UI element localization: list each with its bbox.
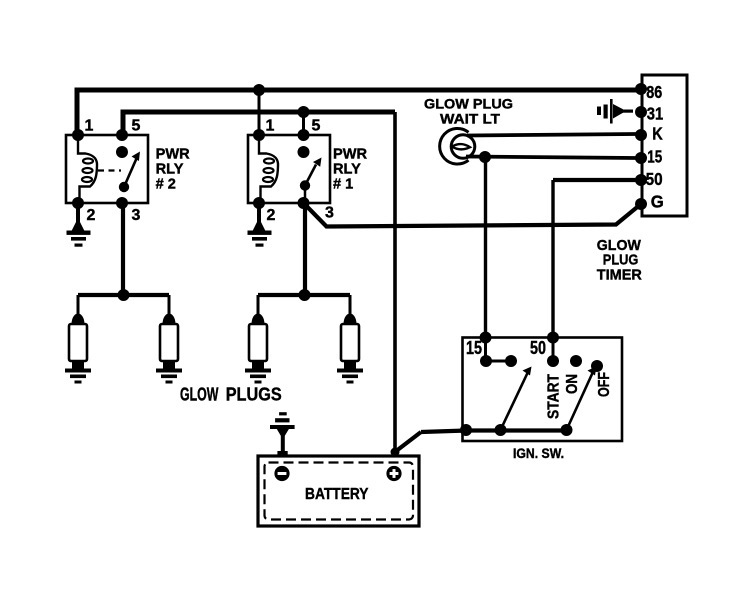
chassis symbol at terminal 31 (597, 99, 633, 124)
svg-text:2: 2 (87, 207, 96, 224)
node: 15 wire at box edge (480, 332, 492, 344)
terminal dot K (635, 129, 647, 141)
wire: drop to glow plug GP4 (349, 295, 352, 315)
svg-text:BATTERY: BATTERY (305, 486, 369, 503)
wire: right glow plug header (258, 293, 350, 297)
svg-text:31: 31 (647, 104, 664, 124)
node: right header junction (299, 289, 311, 301)
wire: drop to glow plug GP3 (257, 295, 260, 315)
terminal dot 31 (635, 106, 647, 118)
wire: 50 from timer to ignition switch (553, 178, 640, 182)
pin dot 5 relay2 (116, 129, 128, 141)
wire: second bus from relay2 terminal 5 to battery + drop (123, 112, 395, 135)
pin dot 3 relay2 (116, 197, 128, 209)
svg-text:# 1: # 1 (333, 176, 353, 192)
wire: battery feed drop (393, 112, 397, 453)
ground above battery minus (270, 412, 295, 456)
svg-text:5: 5 (312, 118, 321, 135)
ignition switch box (463, 338, 623, 442)
switch arm relay2 with arrowhead (119, 152, 140, 193)
wire: top bus from relay2 terminal 1 to timer 86 (77, 90, 641, 135)
pin dot 1 relay1 (253, 129, 265, 141)
ground under relay2 pin 2 (67, 203, 91, 247)
svg-text:1: 1 (85, 118, 94, 135)
node: 50 wire at box edge (547, 332, 559, 344)
switch arm 1 with arrowhead (501, 367, 532, 431)
node: rail pivot 1 (495, 424, 507, 436)
svg-text:PWR: PWR (156, 146, 191, 162)
terminal dot 50 (635, 174, 647, 186)
svg-text:K: K (652, 124, 663, 144)
wire: drop to glow plug GP2 (168, 295, 171, 315)
wire: lamp to K (467, 134, 640, 136)
svg-text:RLY: RLY (156, 162, 184, 178)
node: ON contact (570, 355, 582, 367)
svg-text:G: G (651, 192, 664, 212)
pin dot 3 relay1 (298, 197, 310, 209)
battery box (258, 456, 419, 526)
node: OFF contact (591, 360, 603, 372)
wire: battery plus diagonal to switch rail (396, 432, 422, 452)
pin dot 5 relay1 (298, 129, 310, 141)
glow plug GP2 (156, 314, 182, 384)
svg-text:IGN. SW.: IGN. SW. (513, 445, 564, 461)
wire: relay2 pin3 down to glow plug pair (121, 203, 125, 295)
node: 15 contact right (505, 355, 517, 367)
wire: 50 stub inside switch (552, 338, 555, 362)
svg-text:# 2: # 2 (156, 176, 176, 192)
relay U1 box (PWR RLY #1) (248, 135, 330, 203)
wire: drop from 86 bus to relay1 terminal 1 (258, 90, 261, 135)
wire: 15 stub inside switch (486, 338, 512, 362)
svg-text:PWR: PWR (333, 146, 368, 162)
svg-text:1: 1 (266, 118, 275, 135)
node: rail dot at box edge (460, 424, 472, 436)
terminal dot 86 (635, 83, 647, 95)
node: junction on 15 wire (479, 151, 491, 163)
node: left header junction (118, 289, 130, 301)
contact dot relay2 (116, 146, 128, 158)
svg-text:15: 15 (647, 147, 662, 167)
svg-text:GLOW PLUG: GLOW PLUG (424, 97, 513, 112)
pin dot 2 relay1 (253, 197, 265, 209)
terminal dot G (635, 198, 647, 210)
svg-text:OFF: OFF (596, 372, 613, 397)
relay U2 box (PWR RLY #2) (66, 135, 148, 203)
svg-text:PLUGS: PLUGS (226, 385, 282, 405)
svg-text:RLY: RLY (333, 162, 361, 178)
svg-text:GLOW: GLOW (180, 385, 219, 405)
battery inner dashed border (265, 463, 414, 520)
coil relay1 (259, 137, 278, 201)
wire: left glow plug header (78, 293, 169, 297)
node: 15 contact (480, 355, 492, 367)
svg-text:TIMER: TIMER (597, 267, 642, 284)
node: junction on 86 bus above relay1 (253, 84, 265, 96)
node: battery plus junction (391, 448, 400, 457)
svg-text:START: START (546, 373, 563, 419)
pin dot 1 relay2 (72, 129, 84, 141)
switch arm relay1 with arrowhead (300, 158, 322, 202)
wire: 15 drop to ignition switch (484, 157, 487, 338)
svg-text:50: 50 (530, 338, 546, 358)
svg-text:5: 5 (132, 118, 141, 135)
contact dot relay1 (298, 146, 310, 158)
wire: lamp to 15 (466, 157, 640, 159)
glow plug GP1 (65, 314, 91, 384)
svg-text:ON: ON (564, 374, 581, 394)
pin dot 2 relay2 (72, 197, 84, 209)
glow plug wait lamp (440, 128, 475, 164)
glow plug GP4 (337, 314, 363, 384)
svg-text:86: 86 (646, 82, 662, 102)
wire: drop from second bus to relay1 terminal 5 (302, 112, 305, 135)
wire: relay1 pin3 down to glow plug pair (303, 203, 307, 295)
node: rail pivot 2 (561, 424, 573, 436)
wire: G from timer to relay1 pin3 (305, 204, 639, 227)
ground under relay1 pin 2 (248, 203, 272, 247)
node: 50 contact (547, 355, 559, 367)
glow plug timer box (642, 75, 687, 216)
svg-text:WAIT LT: WAIT LT (440, 112, 501, 127)
wire: drop to glow plug GP1 (77, 295, 80, 315)
wire: switch common rail (421, 431, 568, 433)
glow plug GP3 (245, 314, 271, 384)
svg-text:2: 2 (267, 207, 276, 224)
node: junction on second bus above relay1 terminal 5 (298, 106, 310, 118)
dashed actuator link relay2 (98, 169, 121, 171)
svg-text:50: 50 (646, 169, 663, 189)
battery minus terminal (274, 466, 289, 481)
coil relay2 (78, 137, 97, 201)
svg-text:3: 3 (325, 205, 334, 222)
switch arm 2 with arrowhead (567, 367, 597, 431)
battery plus terminal (386, 466, 401, 481)
svg-text:15: 15 (466, 338, 482, 358)
svg-text:3: 3 (132, 207, 141, 224)
terminal dot 15 (635, 152, 647, 164)
